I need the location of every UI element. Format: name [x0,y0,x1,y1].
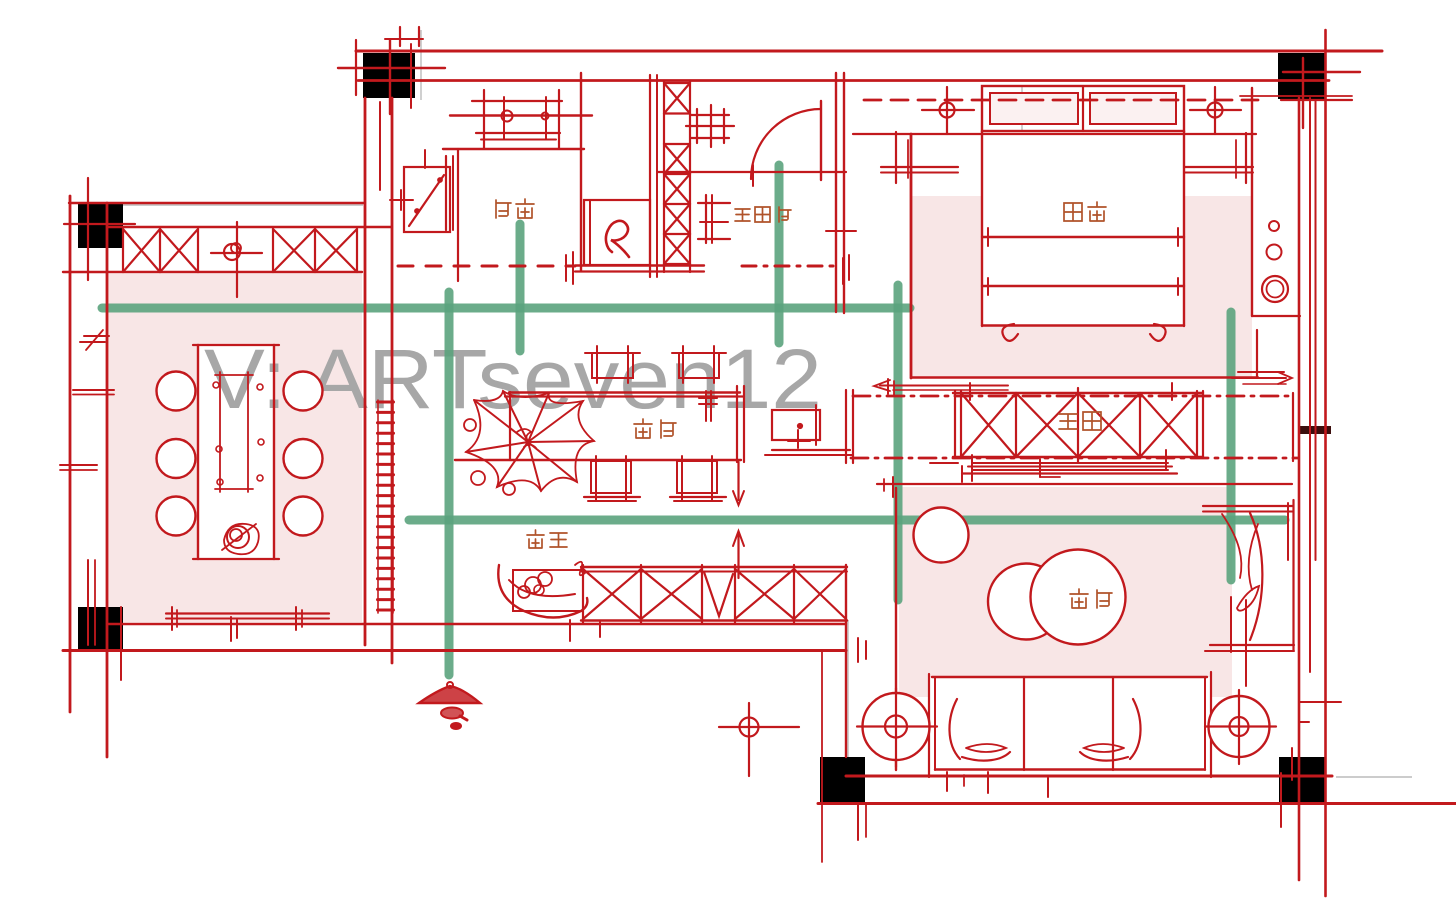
bed headboard inner left [990,93,1078,124]
wall appliance circles right [1269,221,1279,231]
dining chair top-right [679,353,719,378]
bathroom dash-dot wall line [742,265,834,268]
appliance box with diagonal [404,167,450,232]
bed blanket line 2 [982,285,1184,287]
kitchen sink knobs [502,111,513,122]
ticks above column top-left [399,27,401,46]
column left-lower [78,607,123,651]
tick at top wall left end [355,40,357,95]
column bottom-middle [820,757,865,805]
kitchen left wall inner [391,98,394,663]
kitchen counter grid [472,100,562,102]
shaft X cells [664,83,690,114]
left wing closet bottom line [63,271,362,273]
gray construction lines [107,30,1412,777]
dining table left edge [509,392,511,460]
living rug circle big left [988,564,1064,640]
left wall double ticks [73,389,114,391]
bathroom right wall double [835,73,837,312]
dining chair bottom-left [591,461,631,493]
sofa pillow left [949,699,1010,761]
dining table bottom line [455,459,741,461]
green vertical living-left [894,285,903,600]
column bottom-right [1279,757,1326,802]
ladder hatch rungs [378,401,394,404]
dining chair bottom-right [677,461,717,493]
living room left wall segment [895,488,897,770]
label woshi bedroom [1064,203,1082,221]
wardrobe sliding rails [972,462,1168,464]
ticks left of fridge bottom [565,255,567,281]
wardrobe cell dividers [1015,393,1017,457]
ticks at living room top line [892,477,894,497]
tick pair mid bottom wall [230,617,232,641]
white fill dining-storage table [198,345,274,559]
label yimao cloakroom [1059,414,1077,429]
bedroom right ledge [1252,315,1300,317]
kitchen left wall outer [364,98,367,645]
nightstand right [1184,166,1253,168]
shaft box frame [663,81,665,272]
bedroom left wall [910,134,913,378]
cross through column left-upper [64,223,135,225]
label weishengjian bathroom [735,209,750,221]
left closet knob stem [236,222,238,297]
bed headboard outer [982,86,1184,131]
wardrobe top ticks [969,383,971,400]
green vertical corridor [445,292,454,675]
left closet x-cell dividers [122,229,124,272]
bedroom dashed ceiling line [864,99,1258,102]
dining chair top-left [592,353,633,378]
kitchen left wall short inner line [379,102,381,190]
label xuanguan entrance [527,530,544,548]
ladder hatch rails [377,400,379,613]
green vertical kitchen [516,224,525,351]
left room flower doodle [227,526,249,548]
bathroom toilet fixture [705,195,707,243]
bedroom line under headboard [853,133,1256,135]
kitchen left inner wall [457,149,459,281]
floor drain symbol [740,718,759,737]
entry bottom wall lower line [63,649,846,652]
entry cabinet dividers [582,565,584,623]
laundry wall stub left of wardrobe [845,390,847,463]
entry bottom wall upper line [107,623,846,625]
bed foot curl right [1150,324,1166,341]
ticks at bedroom bottom arrow [887,379,889,394]
sofa pillow right [1080,699,1141,761]
short vertical at bedroom bottom right [1256,330,1258,377]
white fill sofa [929,677,1211,775]
left wall equal ticks [84,335,109,337]
bed foot curl left [1002,324,1018,341]
shaft left wall double [649,75,651,277]
bed foot line [982,324,1184,326]
label canting dining room [634,419,652,438]
short vertical right end of wardrobe zone [1292,393,1294,461]
top wall outer line [356,50,1382,53]
pink fill left storage room [106,274,362,622]
left closet X boxes [123,229,160,272]
bathroom door jamb tick [752,165,754,186]
bathroom window grid [691,114,729,116]
green highlighter strokes [102,165,1285,675]
left wing top wall outer [69,202,364,204]
sofa side table left [863,693,930,760]
living bottom wall lower [818,802,1456,805]
left room table [197,345,199,559]
sofa seat dividers [1023,677,1025,770]
left room bench bottom [166,612,329,614]
bedroom light symbol left [940,103,955,118]
left wing top wall inner [107,226,392,228]
arrow down corridor [737,462,739,500]
wall between entry and living [821,650,823,862]
bed blanket line 1 [982,236,1184,238]
bed headboard center divider [1082,86,1084,131]
kitchen wall stub left [445,156,447,230]
white bed cutout over bedroom pink [982,131,1184,326]
sofa side table right [1209,696,1270,757]
green horizontal upper [102,304,910,313]
bed headboard inner right [1090,93,1176,124]
dining table top double line [509,391,740,393]
green vertical bathroom [775,165,784,343]
column top-left [363,53,415,98]
cross through column top-right [1283,71,1360,73]
dark block on right wall [1298,426,1331,434]
dining table right edge double [736,386,738,462]
kitchen dashed wall line [398,265,575,268]
top wall inner line [358,79,1329,82]
living room top line [877,483,1292,485]
appliance box ticks [424,150,426,168]
bedroom bottom edge line [911,376,1258,378]
bottom-right column ticks [1280,773,1282,827]
bedroom light symbol right [1208,103,1223,118]
column left-upper [78,202,123,248]
left room table small items [213,382,219,388]
entry cabinet X cells [583,569,641,619]
kitchen island top line [443,148,584,150]
pink fill bedroom [911,196,1252,377]
bedroom bottom arrow left [880,385,1008,387]
wardrobe X cells [961,393,1016,457]
left wall vertical ticks lower [87,560,89,645]
left outer wall [69,196,72,712]
hash mark inside table right [705,391,707,421]
wardrobe frame [954,391,956,458]
wardrobe dash-dot line lower [851,457,1298,460]
entry cabinet strip frame [581,566,847,568]
left room chairs [157,372,196,411]
small side table right of dining [772,410,820,440]
compass doodle [419,686,480,703]
ticks on entry bottom wall [569,620,571,641]
green horizontal lower [409,516,1285,525]
bed left side [981,131,983,326]
bathroom door leaf [820,101,822,180]
living rug circle big right [1031,550,1126,645]
left room table inner rect [219,372,221,492]
fridge R script letter [606,221,629,257]
sofa bottom ticks [946,772,948,791]
sofa frame [932,676,1207,678]
living bottom wall upper [846,775,1332,778]
vertical tick right of sofa [1245,600,1247,686]
nightstand left [881,166,958,168]
entry cabinet V cell [704,572,733,616]
web doodle loops [471,471,485,485]
right outer wall lines [1298,98,1301,880]
ticks below bottom-middle column [857,805,859,840]
armchair right [1203,505,1293,507]
column top-right [1278,53,1326,99]
wardrobe dash-dot line upper [853,395,1295,398]
bedroom right wall [1251,88,1253,316]
living rug circle small [914,508,969,563]
cross through column top-left [338,67,445,69]
rail end ticks [930,462,958,464]
arrow up corridor [737,533,739,578]
label chufang kitchen [496,200,511,218]
entry basket doodle [513,570,583,611]
bed right side [1183,131,1185,326]
label keting living room [1070,589,1088,608]
bathroom door swing arc [751,109,821,179]
kitchen right wall [580,73,582,271]
green vertical living-right [1227,312,1236,580]
left closet knob handle [211,252,262,254]
pendant web doodle [466,391,594,491]
left inner wall [106,203,109,757]
ticks on bathroom right wall [826,230,856,232]
bedroom bottom arrow right [1238,371,1284,373]
bathroom partition wall [658,171,846,173]
kitchen bottom double wall lines [575,264,704,266]
pink fill living room [899,487,1232,697]
fridge box [584,200,650,265]
